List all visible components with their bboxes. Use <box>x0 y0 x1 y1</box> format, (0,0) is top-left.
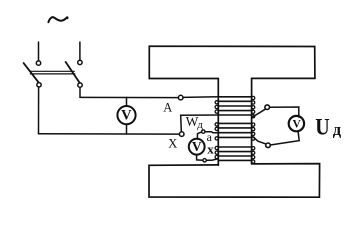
winding turn 7 <box>218 127 251 129</box>
wire x to winding <box>206 159 218 161</box>
core top yoke <box>149 46 315 78</box>
voltmeter V1 stub bottom <box>126 124 128 134</box>
wire A to winding <box>183 96 218 99</box>
switch S hinge contact right <box>78 83 82 87</box>
switch S hinge contact left <box>37 83 41 87</box>
switch S top contact right <box>78 60 82 64</box>
terminal x <box>203 159 206 162</box>
svg-text:V: V <box>292 119 301 131</box>
voltmeter V1 <box>117 106 135 124</box>
winding turn 11 <box>218 151 251 153</box>
switch S tie bar <box>30 71 75 74</box>
winding turn 3 <box>218 105 251 107</box>
winding right loops <box>252 96 255 163</box>
wire a to V2 <box>197 132 201 139</box>
wire top tap to V3 <box>270 107 299 117</box>
tap diagonal top <box>252 109 265 117</box>
wire bottom run to X <box>39 133 180 135</box>
core limb left edge <box>217 79 219 166</box>
winding turn 4 <box>218 110 251 112</box>
tap terminal bottom <box>266 143 271 148</box>
switch S blade right <box>66 62 80 83</box>
winding turn 8 <box>218 132 251 134</box>
core limb right edge <box>251 78 253 163</box>
winding turn 5 <box>218 114 251 116</box>
wire V2 bottom <box>197 155 203 161</box>
voltmeter V2 <box>189 139 205 155</box>
winding turn 6 <box>218 122 251 124</box>
wire bottom tap to V3 <box>270 131 299 145</box>
winding turn 10 <box>218 146 251 148</box>
wire right pole down <box>79 87 81 97</box>
svg-text:V: V <box>192 139 202 154</box>
wire X to winding <box>181 115 219 132</box>
tap diagonal bottom <box>252 136 265 144</box>
winding turn 2 <box>218 100 251 102</box>
voltmeter V3 <box>289 116 304 131</box>
winding turn 13 <box>218 159 251 161</box>
svg-text:д: д <box>333 120 342 139</box>
svg-text:U: U <box>315 114 330 140</box>
tap terminal top <box>265 105 270 110</box>
core bottom yoke <box>149 164 320 198</box>
svg-text:x: x <box>207 141 214 156</box>
voltmeter V1 stub top <box>126 97 128 106</box>
switch S blade left <box>24 63 39 82</box>
wire right feed <box>79 42 81 60</box>
wire top run to A <box>80 96 178 98</box>
winding turn 12 <box>218 155 251 157</box>
switch S top contact left <box>36 61 40 65</box>
AC source tilde <box>48 17 67 22</box>
wire left feed <box>38 42 40 61</box>
winding turn 9 <box>218 136 251 138</box>
winding left loops <box>215 101 218 159</box>
wire a to winding <box>205 132 218 133</box>
svg-text:X: X <box>168 137 177 151</box>
terminal X <box>179 132 184 137</box>
winding turn 1 <box>218 96 251 98</box>
svg-text:д: д <box>197 119 203 131</box>
terminal A <box>178 95 183 100</box>
wire left pole down <box>38 87 40 134</box>
svg-text:V: V <box>121 107 132 123</box>
terminal a <box>202 130 205 133</box>
svg-text:A: A <box>163 101 172 115</box>
